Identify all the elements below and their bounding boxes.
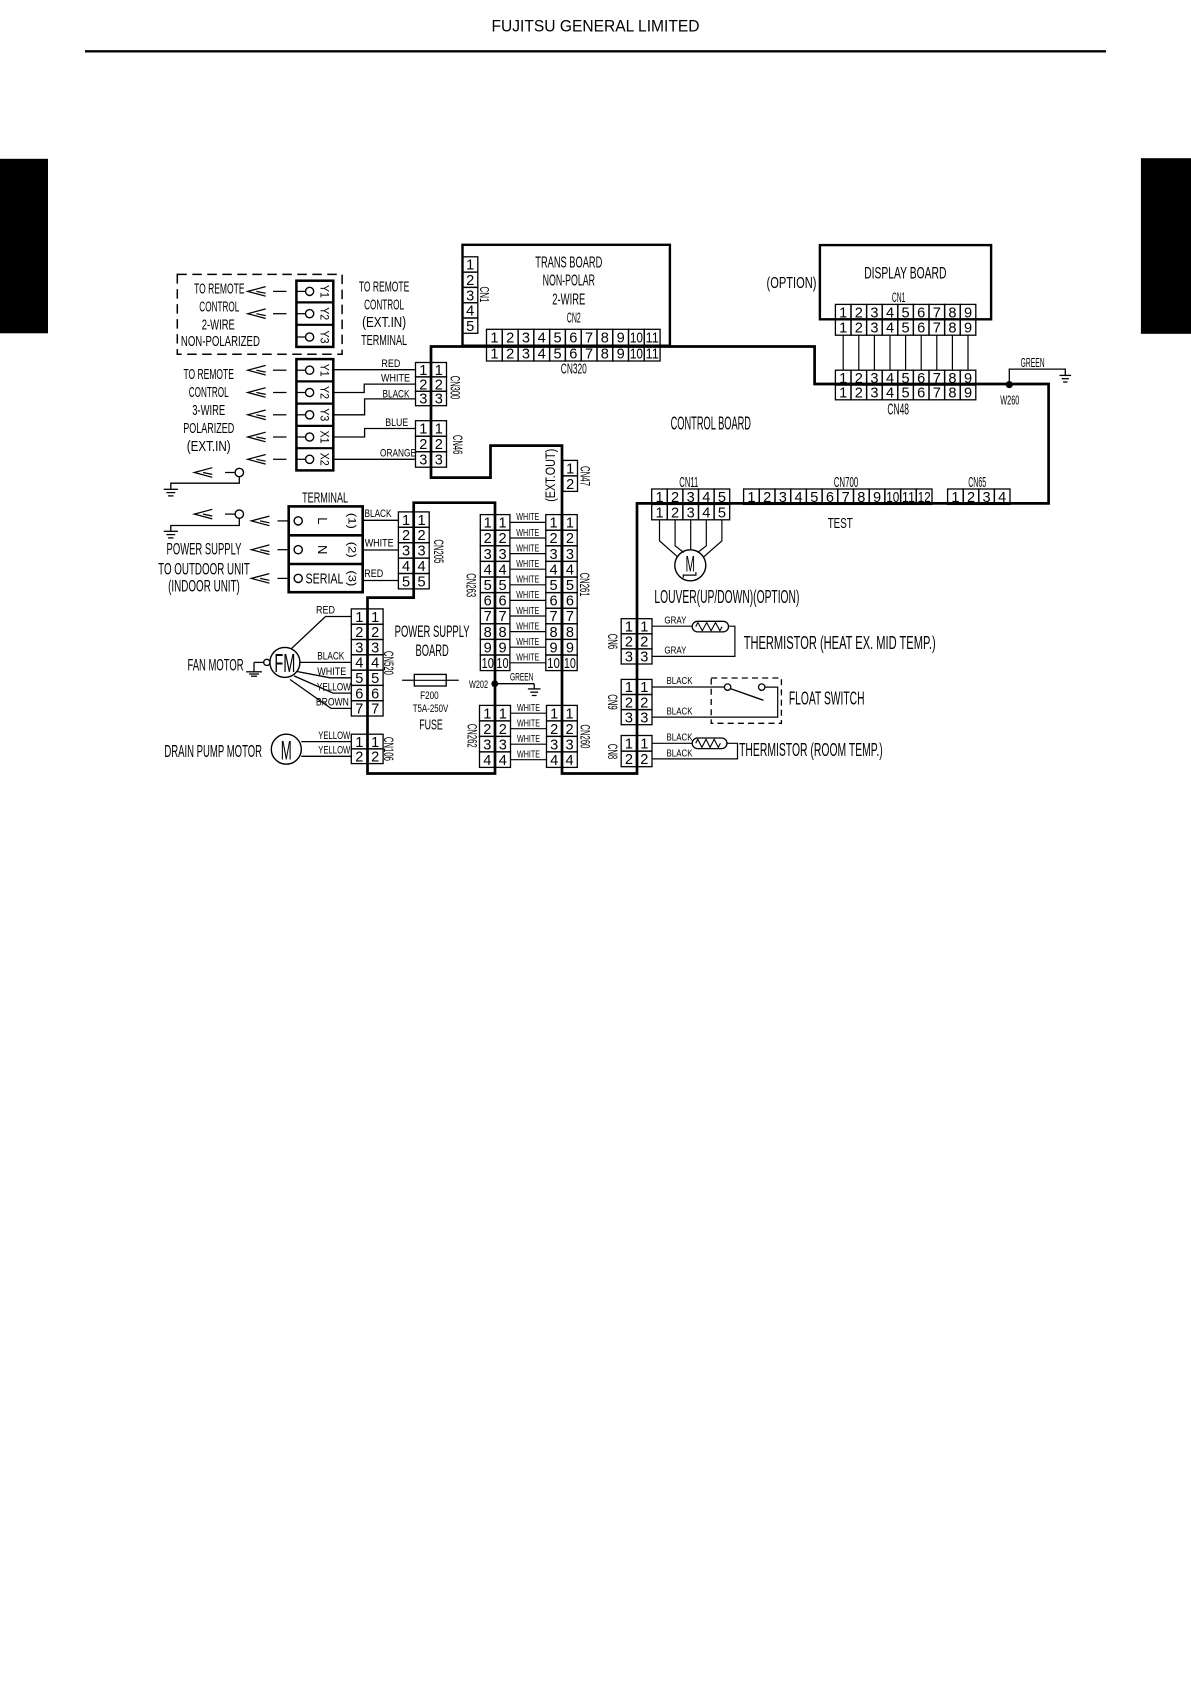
screw terminal SERIAL: [294, 574, 302, 582]
arrow X1 (3-wire): [248, 432, 266, 442]
svg-text:2: 2: [549, 531, 557, 547]
svg-text:1: 1: [566, 706, 574, 722]
svg-text:9: 9: [964, 305, 972, 321]
svg-text:POWER SUPPLY: POWER SUPPLY: [395, 622, 470, 641]
fuse F200 symbol: [402, 679, 459, 681]
svg-text:1: 1: [499, 706, 507, 722]
svg-text:1: 1: [371, 610, 379, 626]
svg-text:5: 5: [902, 321, 910, 337]
svg-text:1: 1: [566, 461, 574, 477]
svg-text:1: 1: [625, 619, 633, 635]
connector CN263: [480, 515, 510, 671]
svg-text:10: 10: [482, 656, 494, 672]
svg-text:3: 3: [625, 650, 633, 666]
svg-text:6: 6: [569, 331, 577, 347]
svg-text:CN46: CN46: [450, 435, 465, 455]
screw terminal L: [294, 517, 302, 525]
svg-text:CONTROL: CONTROL: [199, 299, 239, 315]
svg-text:1: 1: [655, 490, 663, 506]
wire WHITE CN263.5-CN261.5: [510, 584, 546, 586]
power supply board outline: [368, 503, 496, 774]
svg-text:7: 7: [371, 702, 379, 718]
svg-text:3: 3: [483, 737, 491, 753]
svg-text:BLACK: BLACK: [383, 388, 410, 400]
svg-text:3: 3: [522, 331, 530, 347]
svg-text:8: 8: [601, 331, 609, 347]
svg-text:3: 3: [371, 640, 379, 656]
wire earth 2: [171, 518, 240, 531]
svg-text:WHITE: WHITE: [516, 527, 539, 539]
arrow power terminal y549.7: [251, 545, 269, 555]
svg-text:2: 2: [566, 722, 574, 738]
svg-text:3: 3: [498, 547, 506, 563]
svg-text:6: 6: [826, 490, 834, 506]
svg-text:X1: X1: [317, 431, 329, 444]
svg-text:5: 5: [810, 490, 818, 506]
svg-text:BROWN: BROWN: [316, 697, 349, 709]
svg-text:8: 8: [566, 625, 574, 641]
wire GREEN to ground: [1009, 369, 1065, 385]
svg-text:1: 1: [566, 516, 574, 532]
connector CN46: [416, 421, 447, 468]
svg-text:WHITE: WHITE: [365, 538, 394, 550]
svg-text:3: 3: [466, 288, 474, 304]
wire GREEN W202: [495, 683, 534, 685]
svg-text:1: 1: [417, 513, 425, 529]
svg-text:3-WIRE: 3-WIRE: [192, 403, 225, 419]
svg-text:9: 9: [873, 490, 881, 506]
svg-text:3: 3: [550, 737, 558, 753]
screw terminal Y2 (3-wire): [306, 388, 314, 396]
svg-text:2: 2: [371, 625, 379, 641]
wire WHITE CN263.1-CN261.1: [510, 521, 546, 523]
svg-text:2: 2: [499, 722, 507, 738]
svg-text:3: 3: [640, 710, 648, 726]
svg-text:THERMISTOR (ROOM TEMP.): THERMISTOR (ROOM TEMP.): [739, 739, 883, 760]
svg-text:7: 7: [585, 347, 593, 363]
svg-text:WHITE: WHITE: [516, 589, 539, 601]
svg-text:1: 1: [402, 513, 410, 529]
svg-text:6: 6: [569, 347, 577, 363]
svg-text:2: 2: [417, 528, 425, 544]
svg-text:CN6: CN6: [605, 634, 620, 650]
svg-text:CN260: CN260: [578, 724, 593, 748]
svg-text:M: M: [281, 736, 292, 766]
svg-text:1: 1: [484, 516, 492, 532]
wire RED FM-CN520.1: [291, 617, 351, 649]
svg-text:2: 2: [640, 695, 648, 711]
svg-text:3: 3: [549, 547, 557, 563]
svg-text:3: 3: [687, 505, 695, 521]
svg-text:1: 1: [483, 706, 491, 722]
svg-text:CONTROL BOARD: CONTROL BOARD: [671, 412, 751, 433]
svg-text:3: 3: [983, 490, 991, 506]
wire YELLOW FM-CN520.6: [294, 676, 351, 693]
arrow Y1 (3-wire): [248, 365, 266, 375]
wire BLACK CN8.2: [652, 743, 738, 759]
svg-text:FAN MOTOR: FAN MOTOR: [187, 657, 243, 675]
svg-text:2-WIRE: 2-WIRE: [552, 292, 585, 309]
svg-text:5: 5: [566, 578, 574, 594]
svg-text:4: 4: [484, 562, 492, 578]
svg-text:WHITE: WHITE: [516, 605, 539, 617]
svg-text:THERMISTOR (HEAT EX. MID TEMP.: THERMISTOR (HEAT EX. MID TEMP.): [744, 632, 936, 653]
svg-text:Y2: Y2: [317, 307, 329, 320]
svg-text:5: 5: [402, 574, 410, 590]
ground symbol 2: [164, 531, 178, 538]
svg-text:3: 3: [522, 347, 530, 363]
svg-text:DISPLAY BOARD: DISPLAY BOARD: [864, 264, 946, 283]
svg-text:POWER SUPPLY: POWER SUPPLY: [167, 541, 242, 559]
svg-text:8: 8: [549, 625, 557, 641]
svg-text:CN700: CN700: [834, 474, 859, 491]
svg-text:2: 2: [435, 437, 443, 453]
svg-text:CN2: CN2: [567, 310, 581, 326]
wire WHITE CN263.6-CN261.6: [510, 599, 546, 601]
wire YELLOW pump-CN106.2: [301, 755, 351, 757]
display board outline: [820, 245, 991, 319]
svg-text:3: 3: [779, 490, 787, 506]
wire RED Y1-CN300.1: [333, 369, 415, 371]
svg-text:WHITE: WHITE: [516, 574, 539, 586]
svg-text:CN300: CN300: [448, 376, 463, 400]
svg-text:CN263: CN263: [464, 573, 479, 597]
svg-text:1: 1: [655, 505, 663, 521]
svg-text:3: 3: [566, 737, 574, 753]
svg-text:Y2: Y2: [317, 386, 329, 399]
svg-text:8: 8: [484, 625, 492, 641]
svg-text:11: 11: [646, 347, 659, 363]
svg-text:3: 3: [419, 453, 427, 469]
thermistor room symbol: [692, 738, 727, 749]
svg-text:POLARIZED: POLARIZED: [183, 421, 234, 437]
svg-text:2: 2: [671, 490, 679, 506]
svg-text:3: 3: [687, 490, 695, 506]
wire BLUE X1-CN46.1: [333, 429, 415, 438]
svg-text:1: 1: [951, 490, 959, 506]
wire BLACK CN9.3: [652, 687, 778, 717]
svg-text:YELLOW: YELLOW: [318, 730, 350, 742]
svg-text:RED: RED: [316, 604, 335, 616]
svg-text:2: 2: [466, 273, 474, 289]
svg-text:2: 2: [625, 635, 633, 651]
connector CN300: [416, 363, 447, 406]
svg-text:4: 4: [550, 753, 558, 769]
junction W260: [1006, 381, 1013, 388]
thermistor heat ex symbol: [692, 621, 728, 632]
svg-text:9: 9: [617, 331, 625, 347]
svg-text:7: 7: [933, 386, 941, 402]
float switch blade: [730, 689, 763, 701]
svg-text:6: 6: [917, 386, 925, 402]
connector CN8: [621, 736, 652, 767]
wire WHITE CN263.2-CN261.2: [510, 537, 546, 539]
svg-text:6: 6: [917, 305, 925, 321]
svg-text:3: 3: [870, 321, 878, 337]
svg-text:GREEN: GREEN: [1021, 355, 1045, 370]
svg-text:WHITE: WHITE: [517, 749, 540, 761]
wire BLACK Y3-CN300.3: [333, 399, 415, 415]
svg-text:9: 9: [964, 321, 972, 337]
svg-text:1: 1: [419, 422, 427, 438]
wire WHITE CN263.8-CN261.8: [510, 631, 546, 633]
svg-text:GRAY: GRAY: [664, 645, 686, 657]
svg-text:TO REMOTE: TO REMOTE: [359, 280, 409, 296]
wire GRAY CN6.1: [652, 625, 692, 627]
svg-text:3: 3: [435, 453, 443, 469]
svg-text:(EXT.IN): (EXT.IN): [362, 315, 406, 331]
svg-text:RED: RED: [364, 568, 383, 580]
svg-text:3: 3: [419, 392, 427, 408]
svg-text:5: 5: [549, 578, 557, 594]
svg-text:3: 3: [484, 547, 492, 563]
svg-text:CN261: CN261: [577, 573, 592, 597]
svg-text:GRAY: GRAY: [664, 614, 686, 626]
connector CN6: [621, 619, 652, 664]
svg-text:2: 2: [640, 752, 648, 768]
wire WHITE CN263.4-CN261.4: [510, 568, 546, 570]
svg-text:1: 1: [839, 321, 847, 337]
svg-text:WHITE: WHITE: [516, 652, 539, 664]
connector CN700: [744, 489, 932, 504]
svg-text:2: 2: [371, 749, 379, 765]
svg-text:CN520: CN520: [381, 651, 396, 675]
svg-text:Y3: Y3: [317, 331, 329, 344]
connector CN262: [480, 705, 511, 767]
float switch enclosure: [711, 678, 781, 723]
svg-text:WHITE: WHITE: [516, 636, 539, 648]
screw terminal X1 (3-wire): [306, 433, 314, 441]
wire WHITE CN262.3-CN260.3: [511, 743, 547, 745]
svg-text:7: 7: [549, 609, 557, 625]
wire GRAY CN6.3: [652, 626, 735, 656]
svg-text:WHITE: WHITE: [381, 373, 410, 385]
svg-text:CN106: CN106: [381, 737, 396, 761]
wire earth 1: [171, 477, 240, 490]
arrow power terminal y578.4: [251, 574, 269, 584]
svg-text:12: 12: [918, 490, 931, 506]
svg-text:9: 9: [484, 640, 492, 656]
svg-text:4: 4: [566, 753, 574, 769]
svg-text:2: 2: [498, 531, 506, 547]
svg-text:4: 4: [499, 753, 507, 769]
svg-text:1: 1: [549, 516, 557, 532]
svg-text:YELLOW: YELLOW: [317, 681, 351, 693]
wire BLACK L-CN205.1: [363, 519, 399, 521]
wire WHITE CN263.10-CN261.10: [510, 662, 546, 664]
svg-text:FLOAT SWITCH: FLOAT SWITCH: [789, 688, 865, 709]
svg-text:BLUE: BLUE: [385, 417, 408, 429]
wire WHITE FM-CN520.5: [297, 672, 351, 678]
svg-text:4: 4: [538, 347, 546, 363]
svg-text:1: 1: [640, 619, 648, 635]
svg-text:(3): (3): [346, 570, 358, 586]
wire FM ground: [254, 661, 264, 663]
wire WHITE Y2-CN300.2: [333, 384, 415, 392]
ground symbol (green wire): [1060, 375, 1072, 382]
svg-text:T5A-250V: T5A-250V: [413, 703, 449, 715]
connector CN106: [351, 734, 383, 763]
svg-text:GREEN: GREEN: [510, 672, 534, 684]
svg-text:NON-POLAR: NON-POLAR: [543, 273, 595, 290]
svg-text:TRANS BOARD: TRANS BOARD: [535, 254, 602, 271]
terminal block 3-wire (Y1 Y2 Y3 X1 X2): [296, 359, 333, 470]
wire WHITE CN263.9-CN261.9: [510, 646, 546, 648]
svg-text:CN1: CN1: [477, 287, 492, 303]
wire WHITE N-CN205.3: [363, 549, 399, 551]
svg-text:BLACK: BLACK: [667, 747, 693, 759]
svg-text:6: 6: [484, 594, 492, 610]
svg-text:4: 4: [538, 331, 546, 347]
screw terminal Y3 (2-wire): [306, 333, 314, 341]
svg-text:BOARD: BOARD: [416, 641, 449, 660]
svg-text:2: 2: [671, 505, 679, 521]
junction W202: [491, 680, 498, 687]
svg-text:2: 2: [855, 321, 863, 337]
arrow X2 (3-wire): [248, 455, 266, 465]
svg-text:8: 8: [601, 347, 609, 363]
svg-text:8: 8: [948, 305, 956, 321]
screw terminal Y3 (3-wire): [306, 411, 314, 419]
svg-text:7: 7: [933, 321, 941, 337]
svg-text:3: 3: [499, 737, 507, 753]
svg-text:1: 1: [371, 735, 379, 751]
svg-text:5: 5: [718, 490, 726, 506]
svg-text:BLACK: BLACK: [667, 675, 693, 687]
svg-text:5: 5: [498, 578, 506, 594]
svg-text:4: 4: [371, 656, 379, 672]
svg-text:1: 1: [355, 610, 363, 626]
svg-text:FUSE: FUSE: [419, 716, 443, 733]
wire WHITE CN262.2-CN260.2: [511, 728, 547, 730]
svg-text:4: 4: [998, 490, 1006, 506]
svg-text:5: 5: [553, 347, 561, 363]
svg-text:6: 6: [917, 321, 925, 337]
svg-text:2: 2: [419, 437, 427, 453]
svg-text:TERMINAL: TERMINAL: [361, 333, 407, 349]
svg-text:TO OUTDOOR UNIT: TO OUTDOOR UNIT: [158, 561, 250, 579]
svg-text:W260: W260: [1000, 392, 1019, 407]
svg-text:6: 6: [371, 686, 379, 702]
svg-text:YELLOW: YELLOW: [318, 745, 350, 757]
wire RED SERIAL-CN205.5: [363, 580, 399, 582]
svg-text:BLACK: BLACK: [667, 732, 693, 744]
svg-text:WHITE: WHITE: [516, 620, 539, 632]
svg-text:Y1: Y1: [317, 285, 329, 298]
svg-text:10: 10: [630, 331, 643, 347]
svg-text:5: 5: [718, 505, 726, 521]
terminal block 2-wire (Y1 Y2 Y3): [296, 281, 333, 347]
svg-text:LOUVER(UP/DOWN)(OPTION): LOUVER(UP/DOWN)(OPTION): [654, 586, 799, 607]
wires CN1-CN48 (9 lines): [843, 335, 968, 370]
svg-text:F200: F200: [420, 690, 439, 702]
svg-text:CN48: CN48: [887, 401, 909, 418]
svg-text:10: 10: [496, 656, 508, 672]
svg-text:(OPTION): (OPTION): [767, 275, 817, 292]
svg-text:1: 1: [490, 331, 498, 347]
svg-text:CN8: CN8: [605, 744, 620, 760]
svg-text:WHITE: WHITE: [516, 511, 539, 523]
svg-text:3: 3: [870, 386, 878, 402]
svg-text:4: 4: [566, 562, 574, 578]
svg-text:TO REMOTE: TO REMOTE: [194, 282, 244, 298]
wires CN11 to louver motor: [660, 520, 722, 557]
svg-text:(EXT.IN): (EXT.IN): [187, 439, 231, 455]
svg-text:7: 7: [498, 609, 506, 625]
svg-text:2: 2: [506, 347, 514, 363]
louver motor M: [675, 550, 706, 581]
svg-text:CN262: CN262: [464, 724, 479, 748]
svg-text:8: 8: [498, 625, 506, 641]
arrow earth 1: [194, 468, 212, 478]
ground symbol (green psb): [528, 689, 541, 696]
connector CN2: [487, 329, 661, 345]
svg-text:2: 2: [484, 531, 492, 547]
svg-text:5: 5: [553, 331, 561, 347]
svg-text:2: 2: [355, 625, 363, 641]
svg-text:Y1: Y1: [317, 364, 329, 377]
svg-text:2: 2: [625, 752, 633, 768]
svg-text:2: 2: [550, 722, 558, 738]
arrow Y2 (3-wire): [248, 388, 266, 398]
svg-text:1: 1: [747, 490, 755, 506]
svg-text:CN1: CN1: [892, 290, 906, 305]
svg-text:4: 4: [886, 305, 894, 321]
svg-text:WHITE: WHITE: [516, 542, 539, 554]
svg-text:M: M: [686, 552, 696, 577]
connector CN260: [547, 705, 578, 767]
svg-text:WHITE: WHITE: [517, 702, 540, 714]
svg-text:5: 5: [484, 578, 492, 594]
svg-text:1: 1: [839, 305, 847, 321]
svg-text:RED: RED: [381, 358, 400, 370]
svg-text:4: 4: [886, 386, 894, 402]
svg-text:9: 9: [566, 640, 574, 656]
svg-text:4: 4: [702, 505, 710, 521]
svg-text:(2): (2): [346, 542, 358, 558]
fan motor FM: [270, 647, 300, 677]
connector CN9: [621, 679, 652, 724]
svg-text:3: 3: [566, 547, 574, 563]
wire BLACK CN8.1: [652, 742, 692, 744]
svg-text:TO REMOTE: TO REMOTE: [184, 367, 234, 383]
ground symbol 1: [164, 489, 178, 496]
svg-text:2: 2: [855, 305, 863, 321]
svg-text:1: 1: [466, 258, 474, 274]
arrow power terminal y520.9: [251, 516, 269, 526]
svg-text:1: 1: [625, 680, 633, 696]
svg-text:3: 3: [640, 650, 648, 666]
svg-text:5: 5: [902, 386, 910, 402]
svg-text:3: 3: [355, 640, 363, 656]
svg-text:TEST: TEST: [828, 515, 853, 532]
svg-text:4: 4: [702, 490, 710, 506]
connector CN47: [563, 460, 578, 491]
svg-text:1: 1: [355, 735, 363, 751]
svg-text:WHITE: WHITE: [517, 733, 540, 745]
svg-text:7: 7: [484, 609, 492, 625]
svg-text:W202: W202: [469, 679, 488, 691]
svg-text:CN205: CN205: [431, 539, 446, 563]
svg-text:10: 10: [547, 656, 560, 672]
svg-text:10: 10: [630, 347, 643, 363]
connector CN1 (display): [835, 304, 975, 335]
svg-text:4: 4: [498, 562, 506, 578]
svg-text:2: 2: [625, 695, 633, 711]
connector CN261 outer column: [546, 515, 561, 671]
svg-text:6: 6: [566, 594, 574, 610]
svg-text:6: 6: [355, 686, 363, 702]
